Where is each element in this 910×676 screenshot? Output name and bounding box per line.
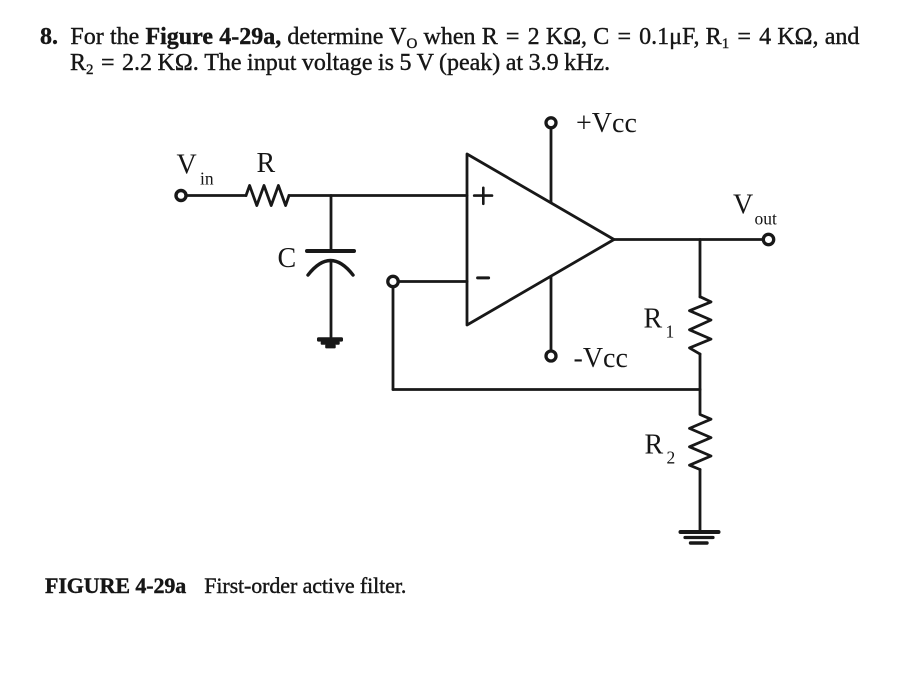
resistor R2 (690, 390, 712, 470)
label Vout (733, 190, 777, 229)
op-amp + pin mark (474, 188, 492, 204)
svg-text:V: V (733, 190, 753, 221)
wire feedback horizontal (393, 388, 700, 391)
terminal Vout (763, 234, 773, 244)
wire output node to R1 (699, 240, 702, 298)
svg-text:-Vcc: -Vcc (574, 343, 628, 374)
figure caption (45, 573, 406, 599)
wire R2 to ground (699, 470, 702, 532)
wire node to capacitor (330, 196, 333, 252)
label -Vcc (574, 343, 628, 374)
capacitor C (307, 251, 354, 275)
svg-text:C: C (278, 243, 297, 274)
wire Vin to R (186, 194, 246, 197)
power -Vcc terminal (546, 277, 556, 362)
svg-text:in: in (200, 169, 214, 189)
svg-text:1: 1 (666, 322, 675, 342)
terminal Vin (176, 191, 186, 201)
wire feedback vertical (392, 287, 395, 390)
resistor R (246, 186, 289, 206)
label C (278, 243, 297, 274)
wire capacitor to ground (330, 261, 333, 337)
svg-text:R: R (645, 430, 664, 461)
label R (257, 148, 276, 179)
op-amp U1 (467, 154, 614, 325)
label Vin (177, 150, 214, 189)
wire R1 to feedback node (699, 354, 702, 390)
svg-text:R: R (644, 304, 663, 335)
label R1 (644, 304, 675, 342)
problem text line 1 (40, 24, 859, 51)
svg-text:V: V (177, 150, 197, 181)
label +Vcc (576, 108, 637, 139)
ground below C (317, 337, 343, 348)
wire R to op-amp noninverting input (289, 194, 467, 197)
svg-text:2: 2 (667, 448, 676, 468)
power +Vcc terminal (546, 118, 556, 203)
svg-text:out: out (755, 209, 778, 229)
ground below R2 (681, 532, 719, 543)
problem text line 2 (70, 50, 610, 77)
wire inverting input (398, 280, 467, 283)
op-amp - pin mark (478, 276, 489, 279)
svg-text:+Vcc: +Vcc (576, 108, 637, 139)
terminal inverting input node (388, 276, 398, 286)
svg-text:R: R (257, 148, 276, 179)
resistor R1 (690, 297, 712, 354)
wire op-amp output (614, 238, 763, 241)
label R2 (645, 430, 676, 468)
